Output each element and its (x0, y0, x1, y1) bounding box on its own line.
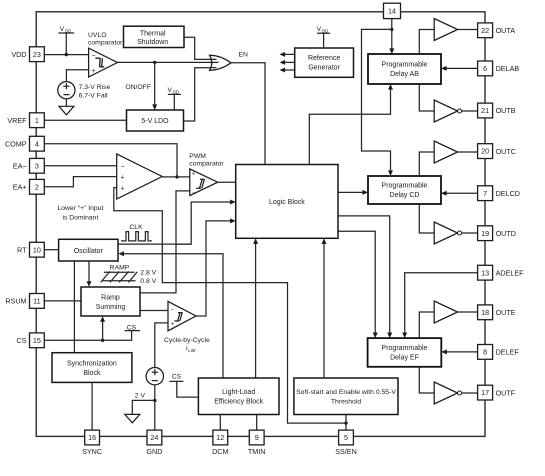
Vdd supply flag above LDO (168, 94, 181, 110)
svg-text:RSUM: RSUM (5, 297, 26, 306)
svg-text:DD: DD (65, 28, 72, 33)
wire inverter D input (419, 204, 434, 233)
svg-text:+: + (192, 172, 196, 178)
svg-text:SS/EN: SS/EN (335, 447, 357, 456)
wire ON/OFF arrow into 5-V LDO top (154, 62, 156, 105)
pin 2 EA+ (30, 179, 45, 194)
svg-text:DELCD: DELCD (496, 189, 520, 198)
pin 1 VREF (30, 113, 45, 128)
wire TMIN pin to light-load block (256, 415, 258, 431)
pin 9 TMIN (249, 430, 264, 445)
svg-text:5: 5 (344, 433, 348, 442)
CLK waveform (121, 232, 152, 241)
svg-text:ADELEF: ADELEF (496, 268, 525, 277)
svg-text:EA–: EA– (13, 162, 27, 171)
svg-text:VREF: VREF (7, 116, 27, 125)
wire soft-start block up into Logic Block bottom (323, 242, 325, 378)
CS flag near light-load block (169, 381, 198, 397)
svg-text:−: − (192, 191, 196, 197)
pin 13 ADELEF (478, 265, 493, 280)
node EA output junction (175, 175, 178, 178)
output buffer C (434, 141, 457, 163)
svg-text:4: 4 (35, 139, 39, 148)
UVLO comparator U1 (89, 48, 118, 77)
wire source to GND pin (154, 385, 156, 430)
wire CS pin with branch up into Ramp Summing (44, 331, 140, 341)
svg-text:3: 3 (35, 161, 39, 170)
wire ADEL branch to Delay CD (362, 29, 392, 172)
reference generator output arrows (283, 54, 295, 70)
wire buffer A input (419, 30, 434, 55)
wire PWM comparator output to Logic Block (218, 181, 236, 183)
wire PWM minus input to Ramp Summing output (140, 191, 190, 293)
wire inverter B output to OUTB (462, 110, 478, 112)
wire DELAB pin into Delay AB (444, 67, 477, 69)
svg-text:16: 16 (88, 433, 96, 442)
wire cycle-by-cycle plus to 2-V source (155, 323, 168, 368)
svg-text:LIM: LIM (188, 348, 196, 353)
svg-text:24: 24 (150, 433, 158, 442)
pin 15 CS (30, 333, 45, 348)
svg-text:9: 9 (255, 433, 259, 442)
cycle-by-cycle comparator (168, 301, 196, 330)
pin 18 OUTE (478, 305, 493, 320)
svg-text:Shutdown: Shutdown (137, 39, 168, 46)
wire VDD pin to UVLO minus input (44, 54, 88, 56)
svg-text:Programmable: Programmable (382, 183, 428, 190)
pin 16 SYNC (85, 430, 100, 445)
pin 10 RT (30, 242, 45, 257)
svg-text:+: + (171, 322, 175, 328)
wire Thermal Shutdown to OR top input (184, 37, 213, 59)
light-load efficiency block (198, 378, 279, 415)
svg-text:17: 17 (481, 388, 489, 397)
svg-text:comparator: comparator (88, 40, 123, 47)
pin 4 COMP (30, 136, 45, 151)
svg-text:OUTF: OUTF (496, 388, 516, 397)
svg-text:OUTD: OUTD (496, 229, 516, 238)
svg-text:0.8 V: 0.8 V (140, 278, 156, 285)
svg-text:6.7-V Fall: 6.7-V Fall (79, 93, 109, 100)
svg-text:14: 14 (388, 7, 396, 16)
svg-text:Synchronization: Synchronization (67, 360, 117, 367)
pin 21 OUTB (478, 103, 493, 118)
wire buffer C input (419, 152, 434, 176)
svg-text:PWM: PWM (189, 153, 206, 160)
pin 22 OUTA (478, 23, 493, 38)
svg-text:VDD: VDD (11, 50, 26, 59)
5-V LDO block (127, 110, 184, 131)
wire inverter B input (419, 84, 434, 111)
ground 2V (125, 414, 140, 422)
Programmable Delay EF block (368, 338, 442, 367)
svg-text:Reference: Reference (308, 55, 340, 62)
svg-text:10: 10 (33, 245, 41, 254)
wire EN from OR output into Logic Block top (231, 63, 265, 165)
svg-text:Thermal: Thermal (140, 30, 166, 37)
wire DELEF pin into Delay EF (445, 351, 478, 353)
pin 12 DCM (213, 430, 228, 445)
wire Logic Block to Programmable Delay CD (338, 191, 364, 193)
svg-text:DD: DD (173, 90, 180, 95)
wire cycle-by-cycle output into Logic Block (196, 221, 232, 316)
svg-text:−: − (92, 53, 96, 60)
svg-text:Block: Block (83, 370, 101, 377)
pin 20 OUTC (478, 144, 493, 159)
svg-text:15: 15 (33, 336, 41, 345)
svg-text:comparator: comparator (189, 161, 224, 168)
svg-text:Logic Block: Logic Block (269, 199, 305, 206)
svg-text:CS: CS (172, 374, 182, 381)
wire sync block to SYNC pin (91, 382, 93, 430)
wire UVLO plus input to reference source (66, 70, 88, 82)
output inverter B (434, 100, 457, 122)
node ADEL junction (390, 28, 393, 31)
svg-text:DD: DD (322, 28, 329, 33)
Reference Generator block (295, 48, 354, 77)
svg-text:Cycle-by-Cycle: Cycle-by-Cycle (164, 337, 210, 344)
ground under source (65, 99, 67, 107)
thermal shutdown block (124, 26, 185, 47)
node ON/OFF junction (153, 61, 156, 64)
svg-text:Delay CD: Delay CD (390, 192, 420, 199)
Vdd supply flag at VDD (58, 33, 74, 55)
wire EA- pin to error amp (44, 165, 116, 167)
Programmable Delay AB block (368, 54, 441, 84)
svg-text:5-V LDO: 5-V LDO (141, 118, 169, 125)
wire oscillator ramp arrow into Ramp Summing (88, 261, 90, 283)
wire SS/EN pin up to Soft-start block (345, 415, 347, 431)
pin 6 DELAB (478, 61, 493, 76)
wire branch CLK to PWM area (176, 243, 191, 245)
wire pin 14 ADEL down into Delay AB (391, 19, 393, 51)
svg-text:DELAB: DELAB (496, 64, 520, 73)
svg-text:EN: EN (239, 52, 249, 59)
wire EA output to PWM comparator plus (162, 176, 190, 178)
svg-text:CS: CS (127, 324, 137, 331)
svg-text:DCM: DCM (212, 447, 228, 456)
current source 2V (146, 368, 163, 385)
wire Logic Block top up into Delay AB bottom (309, 88, 390, 165)
oscillator block (59, 239, 118, 261)
svg-text:8: 8 (483, 348, 487, 357)
svg-text:is Dominant: is Dominant (62, 215, 98, 222)
output buffer E (434, 301, 457, 323)
wire inverter D output to OUTD (462, 232, 478, 234)
svg-text:18: 18 (481, 308, 489, 317)
svg-text:Programmable: Programmable (382, 345, 428, 352)
soft-start block (294, 378, 398, 415)
wire soft-start to EA lower plus input (114, 188, 346, 424)
svg-text:COMP: COMP (5, 139, 27, 148)
wire DELCD pin into Delay CD (444, 192, 477, 194)
svg-text:CS: CS (17, 336, 27, 345)
svg-text:2: 2 (35, 182, 39, 191)
RAMP waveform (101, 271, 138, 282)
svg-text:TMIN: TMIN (248, 447, 266, 456)
node SS/EN junction (344, 421, 347, 424)
svg-text:DELEF: DELEF (496, 348, 520, 357)
svg-text:CLK: CLK (129, 224, 143, 231)
PWM comparator (190, 169, 218, 196)
wire oscillator to synchronization block (73, 261, 75, 353)
svg-text:2 V: 2 V (135, 392, 146, 399)
svg-text:1: 1 (35, 116, 39, 125)
wire CLK from oscillator into Logic Block (118, 202, 232, 244)
svg-text:13: 13 (481, 268, 489, 277)
output inverter F (434, 382, 457, 404)
output buffer A (434, 19, 457, 41)
wire RSUM pin to Ramp Summing (44, 300, 81, 302)
svg-text:OUTA: OUTA (496, 26, 516, 35)
svg-text:21: 21 (481, 106, 489, 115)
wire DCM pin to light-load block (219, 415, 221, 431)
pin 24 GND (147, 430, 162, 445)
svg-text:+: + (92, 68, 96, 75)
output inverter D (434, 222, 457, 244)
pin 11 RSUM (30, 294, 45, 309)
pin 7 DELCD (478, 186, 493, 201)
wire COMP pin down to EA output node (44, 144, 177, 177)
svg-text:Efficiency Block: Efficiency Block (214, 399, 263, 406)
svg-text:EA+: EA+ (13, 183, 27, 192)
svg-text:−: − (171, 308, 175, 314)
synchronization block (52, 353, 132, 383)
svg-text:ON/OFF: ON/OFF (125, 84, 151, 91)
svg-text:Light-Load: Light-Load (222, 389, 255, 396)
wire inverter F input (419, 367, 434, 393)
Programmable Delay CD block (368, 176, 441, 204)
error amplifier EA (117, 154, 163, 199)
wire buffer C output to OUTC (458, 151, 478, 153)
node VDD junction (65, 53, 68, 56)
wire Logic Block to Delay EF second (338, 231, 375, 334)
svg-text:2.8 V: 2.8 V (140, 269, 156, 276)
svg-text:19: 19 (481, 229, 489, 238)
pin 23 VDD (30, 47, 45, 62)
wire EA+ pin to error amp middle input (44, 177, 116, 187)
wire light-load block up to oscillator sync arrow (123, 254, 224, 378)
wire UVLO output to OR gate (117, 61, 213, 63)
wire inverter F output to OUTF (462, 392, 478, 394)
svg-text:7: 7 (483, 189, 487, 198)
svg-text:Threshold: Threshold (331, 399, 361, 406)
pin 8 DELEF (478, 345, 493, 360)
wire Ramp Summing to cycle-by-cycle minus (140, 310, 168, 312)
wire to 2V ground (132, 400, 155, 414)
svg-text:Lower “+” Input: Lower “+” Input (57, 205, 103, 212)
wire Logic Block to Delay EF first (338, 216, 390, 335)
wire 5-V LDO output up to OR bottom input (184, 68, 213, 121)
wire ADELEF pin to Delay EF (405, 273, 478, 335)
svg-text:RT: RT (17, 245, 27, 254)
svg-text:7.3-V Rise: 7.3-V Rise (79, 84, 111, 91)
svg-text:6: 6 (483, 64, 487, 73)
svg-text:+: + (121, 175, 125, 182)
svg-text:22: 22 (481, 26, 489, 35)
svg-text:−: − (121, 164, 125, 171)
OR gate EN (210, 55, 232, 70)
ramp summing block (81, 287, 140, 316)
pin 17 OUTF (478, 385, 493, 400)
svg-text:OUTC: OUTC (496, 147, 516, 156)
svg-text:SYNC: SYNC (82, 447, 102, 456)
svg-text:12: 12 (216, 433, 224, 442)
svg-text:OUTB: OUTB (496, 106, 516, 115)
svg-text:Delay EF: Delay EF (390, 355, 419, 362)
wire light-load block up into Logic Block bottom (255, 242, 257, 378)
pin 19 OUTD (478, 226, 493, 241)
wire buffer E output to OUTE (458, 311, 478, 313)
voltage source 7.3-V/6.7-V (58, 82, 75, 99)
wire buffer A output to OUTA (458, 29, 478, 31)
svg-text:OUTE: OUTE (496, 308, 516, 317)
pin 5 SS/EN (339, 430, 354, 445)
svg-text:RAMP: RAMP (110, 265, 130, 272)
svg-text:UVLO: UVLO (88, 32, 107, 39)
svg-text:Soft-start and Enable with 0.5: Soft-start and Enable with 0.55-V (296, 389, 396, 396)
svg-text:+: + (121, 186, 125, 193)
svg-text:Delay AB: Delay AB (390, 71, 419, 78)
svg-text:Generator: Generator (308, 65, 340, 72)
Vdd supply flag above Reference Generator (317, 33, 330, 48)
wire buffer E input (419, 312, 434, 338)
pin 3 EA- (30, 158, 45, 173)
wire RT pin to oscillator (44, 249, 58, 251)
wire VREF pin to LDO (44, 119, 126, 121)
svg-text:11: 11 (33, 297, 40, 306)
node 2V ground junction (153, 399, 156, 402)
IC outer border (36, 12, 485, 437)
svg-text:Oscillator: Oscillator (74, 248, 104, 255)
pin 14 ADEL top (384, 3, 401, 18)
svg-text:Programmable: Programmable (382, 62, 428, 69)
svg-text:Summing: Summing (96, 304, 126, 311)
svg-text:Ramp: Ramp (101, 295, 120, 302)
svg-text:23: 23 (33, 50, 41, 59)
svg-text:20: 20 (481, 147, 489, 156)
Logic Block (236, 165, 338, 239)
svg-text:GND: GND (146, 447, 162, 456)
